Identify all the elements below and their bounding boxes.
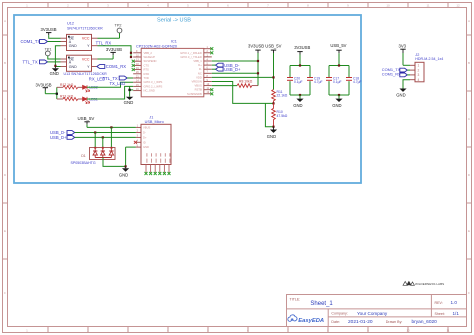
svg-text:IC1: IC1: [171, 40, 177, 44]
svg-text:USB_Micro: USB_Micro: [145, 120, 164, 124]
no-connect marks right pins: [210, 47, 213, 91]
svg-text:CP2102N-A02-GQFN20: CP2102N-A02-GQFN20: [136, 44, 177, 48]
svg-text:GND: GND: [124, 100, 134, 105]
svg-text:RTS: RTS: [144, 68, 150, 72]
svg-text:D+: D+: [143, 135, 147, 139]
svg-text:3V3USB: 3V3USB: [36, 83, 52, 88]
svg-text:VREGIN: VREGIN: [191, 80, 201, 84]
svg-text:VDD: VDD: [196, 75, 202, 79]
svg-text:3V3USB: 3V3USB: [294, 45, 310, 50]
svg-text:GND: GND: [332, 103, 341, 108]
svg-text:GPIO.1_/_RXLED: GPIO.1_/_RXLED: [180, 51, 202, 55]
ground (caps group2): [332, 95, 342, 108]
svg-text:Sheet:: Sheet:: [435, 312, 445, 316]
net TTL_RX wire from U12 Y: [96, 41, 132, 59]
wire cap rail group2: [329, 64, 349, 96]
svg-text:CTS: CTS: [144, 63, 150, 67]
wire COM1_TX to U12 A: [48, 41, 61, 43]
ground (divider): [267, 127, 277, 139]
svg-text:12: 12: [456, 3, 460, 7]
svg-text:USB_5V: USB_5V: [330, 43, 346, 48]
LED D2 (TX): [83, 97, 98, 104]
svg-text:VBB_1: VBB_1: [193, 59, 202, 63]
wire 3V3USB to U13 VCC: [98, 58, 114, 60]
net port COM1_TX: [21, 39, 48, 44]
ground (caps group1): [293, 95, 303, 108]
svg-text:U13 SN74LVT1T126DCKR: U13 SN74LVT1T126DCKR: [64, 72, 108, 76]
svg-text:F: F: [4, 291, 6, 295]
svg-text:VCC: VCC: [82, 37, 90, 41]
svg-text:GPIO.3_/_WPS: GPIO.3_/_WPS: [144, 80, 163, 84]
svg-text:Serial -> USB: Serial -> USB: [157, 18, 191, 24]
buffer U12 SN74LVT1T126DCKR: [61, 22, 104, 51]
wire J2 pin4 to gnd: [403, 80, 410, 89]
net port COM1_RX (output of U13): [97, 64, 126, 69]
ground (U12/U13): [50, 67, 59, 77]
svg-text:WILDERNESS LABS: WILDERNESS LABS: [415, 282, 444, 286]
capacitor C20 0.1uF: [287, 76, 303, 84]
title block: [287, 295, 467, 327]
svg-text:Sheet_1: Sheet_1: [310, 301, 333, 307]
svg-text:F: F: [468, 291, 470, 295]
svg-text:11: 11: [446, 328, 449, 332]
test point TP2: [115, 23, 122, 38]
capacitor C19 4.7uF: [307, 76, 323, 84]
wire cap rail group1: [290, 64, 310, 96]
svg-text:0.1μF: 0.1μF: [333, 80, 342, 84]
svg-text:GND: GND: [267, 134, 276, 139]
svg-text:TITLE:: TITLE:: [290, 297, 301, 301]
power flag USB_5V (connector): [78, 116, 95, 128]
svg-text:3V3USB: 3V3USB: [106, 47, 122, 52]
svg-text:4: 4: [418, 78, 420, 82]
svg-text:J1: J1: [149, 115, 153, 119]
power flag USB_5V (caps): [330, 43, 346, 65]
svg-text:GPIO.2_/_WPS: GPIO.2_/_WPS: [144, 84, 163, 88]
no-connect mark ID pin: [134, 141, 137, 144]
svg-text:A: A: [4, 19, 6, 23]
svg-text:D1: D1: [81, 154, 86, 158]
connector J2 HDR-M-2.54_1x4: [410, 53, 443, 82]
svg-text:GND: GND: [69, 44, 77, 48]
wire TTL_TX to IC: [127, 77, 133, 79]
ground (IC pin 10): [124, 86, 134, 104]
svg-text:B: B: [468, 61, 470, 65]
svg-text:SN74LVT1T126DCKR: SN74LVT1T126DCKR: [67, 26, 103, 30]
svg-text:TTL_RX: TTL_RX: [96, 41, 112, 46]
resistor R13 1k (TX led): [60, 95, 83, 101]
svg-text:GND: GND: [50, 71, 59, 76]
power flag 3V3USB (caps): [294, 45, 310, 66]
power flag 3V3USB (LEDs): [36, 83, 52, 94]
svg-text:B: B: [4, 61, 6, 65]
svg-text:TTL_TX: TTL_TX: [103, 76, 118, 81]
tvs diode array D1 SP0503BAHTG: [71, 147, 116, 165]
wire TTL_TX to U13 A: [48, 61, 61, 63]
connector J1 USB_Micro: [136, 115, 171, 175]
svg-text:COM1_RX: COM1_RX: [106, 64, 126, 69]
svg-text:USB_D+: USB_D+: [224, 67, 241, 72]
svg-text:1: 1: [418, 64, 420, 68]
net port COM1_RX (header): [382, 72, 410, 77]
net port COM1_TX (header): [382, 67, 410, 72]
svg-text:Drawn By:: Drawn By:: [386, 320, 403, 324]
svg-text:SP0503BAHTG: SP0503BAHTG: [71, 161, 96, 165]
svg-text:4.7μF: 4.7μF: [353, 80, 362, 84]
svg-text:1/1: 1/1: [453, 311, 460, 316]
svg-text:U12: U12: [67, 22, 74, 26]
svg-text:SUSPEND: SUSPEND: [144, 59, 157, 63]
svg-text:COM1_RX: COM1_RX: [382, 72, 401, 77]
wire D+ line: [75, 136, 136, 138]
svg-text:VBUS: VBUS: [143, 125, 151, 129]
power flag 3V3USB (U12): [41, 27, 57, 38]
svg-text:RSTB: RSTB: [195, 88, 202, 92]
ic IC1 CP2102N-A02-GQFN20: [136, 40, 204, 97]
wire LED TX to IC: [87, 86, 133, 99]
wire SUSPENDB to divider bottom: [210, 92, 213, 95]
svg-text:GND: GND: [143, 145, 149, 149]
svg-text:NC_GND: NC_GND: [144, 89, 155, 93]
svg-text:WAKEUP: WAKEUP: [144, 55, 156, 59]
selection group box Serial->USB: [14, 15, 361, 183]
wire U12 VCC to TP2: [98, 37, 120, 39]
power flag 3V3USB (U13): [106, 47, 122, 59]
svg-text:11: 11: [426, 3, 429, 7]
svg-text:4.7μF: 4.7μF: [314, 80, 323, 84]
resistor R8 10k (reset pullup): [212, 79, 258, 87]
svg-text:10: 10: [406, 328, 410, 332]
resistor R10 47.5k: [272, 103, 288, 127]
wire TVS drops: [95, 127, 111, 147]
svg-text:2021-01-20: 2021-01-20: [348, 319, 373, 325]
svg-text:COM1_TX: COM1_TX: [21, 39, 41, 44]
svg-text:TX_LED: TX_LED: [110, 81, 126, 86]
net port USB_Dm (connector): [50, 130, 75, 135]
test point TP1: [45, 48, 61, 59]
net port USB_Dp (connector): [50, 135, 75, 140]
svg-text:A: A: [468, 19, 470, 23]
svg-text:GPIO.0_/_TXLED: GPIO.0_/_TXLED: [180, 55, 201, 59]
net port TTL_TX (input): [23, 60, 48, 65]
svg-text:3V3USB: 3V3USB: [41, 27, 57, 32]
wire VBUS divider top: [212, 82, 274, 104]
svg-text:USB_5V: USB_5V: [265, 43, 281, 48]
LED D3 (RX): [83, 85, 98, 92]
wire D- line: [75, 131, 136, 133]
svg-text:R8 10kΩ: R8 10kΩ: [239, 79, 253, 83]
svg-text:GND: GND: [396, 93, 405, 98]
ground (USB shield): [119, 166, 129, 177]
EasyEDA logo: [288, 315, 324, 324]
svg-text:3V3: 3V3: [399, 44, 407, 49]
net port USB_Dm: [212, 63, 240, 68]
resistor R12 1k (RX led): [60, 83, 83, 89]
ic IC1 left pins: [133, 53, 141, 91]
svg-text:VCC: VCC: [82, 58, 90, 62]
svg-text:bryan_6020: bryan_6020: [412, 319, 438, 325]
shield pins: [146, 165, 169, 173]
svg-text:D-: D-: [199, 67, 202, 71]
svg-text:E: E: [468, 229, 470, 233]
svg-text:EasyEDA: EasyEDA: [298, 318, 324, 324]
svg-text:D-: D-: [143, 131, 146, 135]
ground (J2): [396, 89, 406, 98]
svg-text:D+: D+: [198, 63, 202, 67]
svg-text:1.0: 1.0: [451, 300, 458, 305]
svg-text:GND: GND: [119, 172, 128, 177]
no-connect marks left pins: [132, 60, 135, 71]
svg-text:10: 10: [386, 3, 390, 7]
svg-text:Your Company: Your Company: [357, 311, 388, 316]
svg-text:22.1kΩ: 22.1kΩ: [277, 94, 288, 98]
resistor R11 22.1k: [272, 90, 288, 105]
power flag 3V3: [399, 44, 407, 66]
svg-text:E: E: [4, 229, 6, 233]
wire U12/U13 GND rail: [54, 46, 60, 67]
svg-text:VBB_2: VBB_2: [144, 51, 153, 55]
svg-text:REV:: REV:: [435, 301, 443, 305]
svg-text:RXD: RXD: [144, 72, 150, 76]
wire TVS common to gnd: [103, 147, 136, 167]
wire VREGIN to USB_5V: [212, 50, 275, 89]
Wilderness Labs logo: [403, 281, 444, 286]
svg-text:GND: GND: [69, 65, 77, 69]
wire LED RX to IC: [87, 82, 133, 87]
net port TTL_TX (to IC): [103, 76, 128, 81]
wire VBUS line: [87, 126, 136, 128]
svg-text:TP2: TP2: [115, 23, 122, 27]
svg-text:USB_D+: USB_D+: [50, 135, 67, 140]
svg-text:GND: GND: [293, 103, 302, 108]
svg-text:3: 3: [418, 73, 420, 77]
svg-text:VBUS: VBUS: [194, 84, 202, 88]
power flag USB_5V (IC VREGIN): [265, 43, 281, 50]
svg-text:HDR-M-2.54_1x4: HDR-M-2.54_1x4: [415, 57, 443, 61]
svg-text:2: 2: [418, 68, 420, 72]
svg-text:NC: NC: [198, 71, 202, 75]
svg-text:47.5kΩ: 47.5kΩ: [277, 114, 288, 118]
wire 3V3 to J2 pin1: [403, 64, 410, 66]
ic IC1 right pins: [204, 49, 212, 94]
svg-text:0.1μF: 0.1μF: [294, 80, 303, 84]
wire 3V3USB to U12 OE: [49, 37, 61, 39]
capacitor C17 0.1uF: [326, 76, 342, 84]
power flag 3V3USB (IC VDD): [248, 43, 264, 50]
wire VDD to 3V3USB: [212, 50, 259, 86]
svg-text:3V3USB: 3V3USB: [248, 43, 264, 48]
svg-text:TTL_TX: TTL_TX: [23, 60, 38, 65]
svg-text:Company:: Company:: [331, 312, 347, 316]
buffer U13 SN74LVT1T126DCKR: [61, 55, 108, 76]
svg-text:Date:: Date:: [331, 320, 340, 324]
svg-text:USB_5V: USB_5V: [78, 116, 95, 121]
capacitor C18 4.7uF: [346, 76, 362, 84]
svg-text:ID: ID: [143, 140, 146, 144]
svg-text:SUSPENDB: SUSPENDB: [187, 92, 202, 96]
net port USB_Dp: [212, 67, 241, 72]
svg-text:TXD: TXD: [144, 76, 149, 80]
wire 3V3USB feed to LED resistors: [45, 87, 63, 99]
